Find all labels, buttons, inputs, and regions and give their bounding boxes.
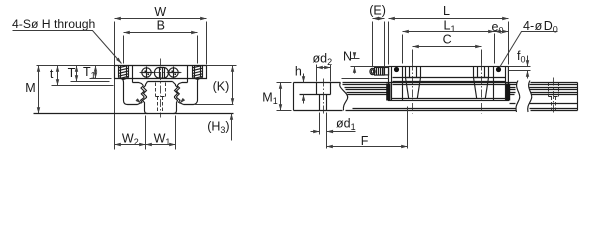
grease nipple side view — [370, 68, 389, 76]
carriage block side view — [389, 67, 509, 101]
rail cross-section — [143, 82, 178, 114]
svg-text:h: h — [295, 65, 302, 79]
rail groove lines — [343, 85, 578, 109]
dim N — [343, 50, 389, 74]
block end seals (black) — [386, 84, 510, 101]
svg-text:f0: f0 — [517, 49, 526, 64]
block bottom extension (K/H3) — [195, 104, 234, 106]
svg-text:t: t — [50, 67, 54, 81]
svg-text:M: M — [25, 81, 35, 95]
dim h — [295, 65, 304, 104]
dim (E) — [369, 4, 388, 67]
dim B — [124, 18, 198, 63]
svg-text:(H3): (H3) — [207, 120, 229, 136]
label 4-dia D0 + leader — [500, 19, 558, 68]
dim C — [413, 33, 482, 64]
svg-text:B: B — [157, 18, 165, 32]
rail section counterbore (d2/d1 hole) — [300, 79, 331, 114]
dim T — [68, 66, 110, 82]
dim W2 / W1 — [115, 116, 176, 150]
dim T1 — [83, 65, 112, 81]
dim dia d1 — [311, 113, 356, 149]
rail contact arrows — [137, 100, 184, 104]
svg-text:(K): (K) — [213, 79, 230, 93]
dim (H3) — [207, 114, 231, 141]
block cross-section outline — [115, 66, 207, 105]
svg-text:T: T — [68, 66, 76, 80]
svg-text:(E): (E) — [369, 4, 386, 18]
svg-text:W: W — [154, 5, 166, 19]
dim e0 — [492, 20, 509, 36]
dim F — [327, 107, 408, 149]
svg-text:L: L — [443, 4, 450, 18]
nipple horizontal centerline — [140, 72, 182, 74]
dim W — [115, 5, 207, 149]
rail bolt hole (hidden) — [156, 83, 166, 113]
datum / bottom line — [34, 113, 234, 115]
grease port circle right — [168, 67, 181, 79]
rail break lines 2 (double) — [516, 80, 532, 113]
svg-text:e0: e0 — [492, 20, 504, 36]
svg-text:M1: M1 — [262, 91, 277, 107]
dim t — [50, 66, 114, 86]
rail right bolt hole (hidden) — [549, 78, 559, 114]
rail side outline — [294, 83, 578, 111]
rail vertical centerline — [160, 59, 162, 118]
dim L1 — [403, 19, 495, 64]
grease hole dots — [394, 67, 501, 72]
dim f0 — [509, 49, 531, 78]
line under nipple — [342, 78, 389, 80]
label 4-S dia H through + leader — [12, 17, 122, 63]
dim M — [25, 66, 114, 114]
block ear tapped holes (4-S) — [119, 65, 203, 79]
dim dia d2 — [312, 52, 332, 82]
rail break line 1 — [340, 83, 348, 111]
grease nipple boss (stadium) — [155, 68, 169, 79]
dim L — [389, 4, 509, 64]
svg-text:ød2: ød2 — [312, 52, 332, 68]
svg-text:4-øD0: 4-øD0 — [523, 19, 558, 35]
svg-text:N: N — [343, 50, 352, 64]
svg-text:4-Sø H through: 4-Sø H through — [12, 17, 95, 31]
block bolt hole 1 — [406, 63, 421, 114]
grease port circle left — [141, 67, 154, 79]
dim (K) — [207, 66, 237, 105]
dim M1 — [262, 83, 291, 111]
block bolt hole 2 — [474, 63, 489, 114]
svg-text:ød1: ød1 — [336, 117, 356, 133]
svg-text:C: C — [443, 33, 452, 47]
